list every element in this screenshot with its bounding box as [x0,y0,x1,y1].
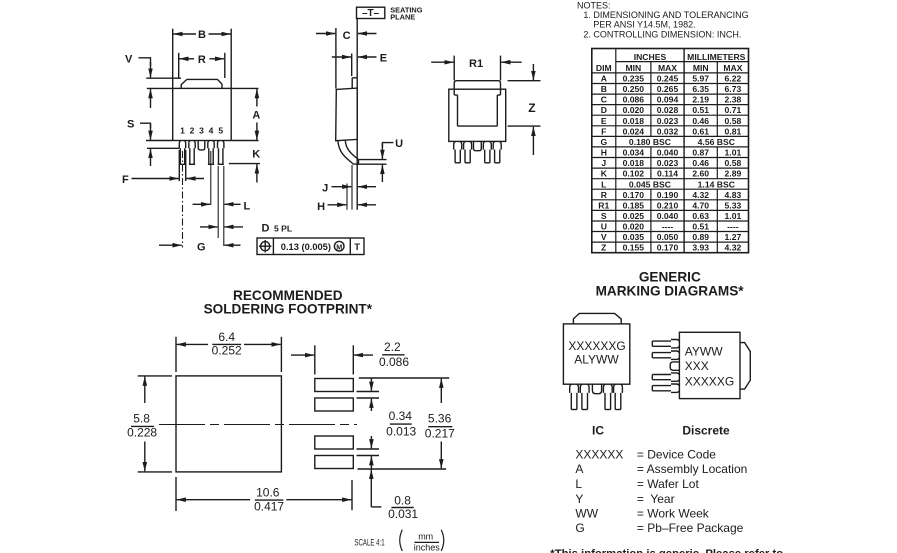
svg-text:*This information is generic.: *This information is generic. Please ref… [550,548,783,553]
dimension 10.6/0.417 [176,477,352,514]
svg-text:MARKING DIAGRAMS*: MARKING DIAGRAMS* [596,283,745,298]
svg-text:0.032: 0.032 [657,126,679,136]
svg-text:1.14 BSC: 1.14 BSC [698,179,735,189]
svg-text:4.70: 4.70 [692,200,709,210]
svg-text:V: V [125,53,133,65]
dimension R (tab width) [179,53,225,78]
svg-text:5.33: 5.33 [725,200,742,210]
svg-text:inches: inches [414,543,441,553]
svg-text:5: 5 [218,126,223,136]
dimension G (pin span) [159,241,241,253]
svg-text:0.190: 0.190 [657,190,679,200]
svg-text:IC: IC [592,424,604,438]
svg-text:G: G [575,521,584,535]
svg-text:H: H [601,148,607,158]
svg-text:2: 2 [190,126,195,136]
dimension 6.4/0.252 [176,330,281,372]
svg-text:XXXXXXG: XXXXXXG [568,339,625,353]
svg-text:0.61: 0.61 [692,126,709,136]
side view: tab [352,78,357,89]
svg-text:M: M [336,242,342,251]
dimension 0.8/0.031 [358,469,447,521]
notes text [577,0,749,39]
svg-text:L: L [575,477,582,491]
footprint: centerline [159,424,357,426]
svg-text:SOLDERING FOOTPRINT*: SOLDERING FOOTPRINT* [204,302,373,317]
svg-text:0.020: 0.020 [623,222,645,232]
svg-text:0.228: 0.228 [127,426,157,440]
svg-text:5 PL: 5 PL [274,224,292,234]
svg-text:3: 3 [199,126,204,136]
svg-text:0.8: 0.8 [394,494,411,508]
svg-text:SCALE 4:1: SCALE 4:1 [354,538,384,548]
dimension L (lead pitch) [193,201,251,213]
svg-text:0.086: 0.086 [623,95,645,105]
svg-text:0.252: 0.252 [212,344,242,358]
svg-text:1.01: 1.01 [725,211,742,221]
svg-text:0.018: 0.018 [623,116,645,126]
svg-text:2.60: 2.60 [692,169,709,179]
svg-text:2.2: 2.2 [384,340,401,354]
marking legend [575,448,747,536]
feature control frame: position tolerance 0.13 (0.005) M T [257,238,364,255]
svg-text:G: G [600,137,607,147]
svg-text:Z: Z [528,101,535,115]
svg-text:5.97: 5.97 [692,74,709,84]
back view: body [449,89,506,141]
dimension table [592,49,749,253]
seating plane line [356,19,358,210]
svg-text:2.38: 2.38 [725,95,742,105]
svg-text:MAX: MAX [658,63,677,73]
svg-text:D: D [262,223,270,235]
svg-text:0.46: 0.46 [692,116,709,126]
svg-text:0.155: 0.155 [623,243,645,253]
svg-text:3.93: 3.93 [692,243,709,253]
svg-text:E: E [380,53,387,65]
svg-text:GENERIC: GENERIC [639,269,701,284]
dimension K (lead length) [229,149,260,183]
dimension J (lead thickness) [322,183,376,195]
svg-text:0.102: 0.102 [623,169,645,179]
lead edge extension lines (J/H) [347,165,352,210]
svg-text:0.46: 0.46 [692,158,709,168]
svg-text:XXXXXG: XXXXXG [685,374,734,388]
svg-text:T: T [354,242,360,253]
dimension E (tab thickness) [332,53,387,77]
svg-text:DIM: DIM [596,63,612,73]
svg-text:0.13 (0.005): 0.13 (0.005) [281,242,331,252]
svg-text:= Wafer Lot: = Wafer Lot [637,477,700,491]
IC package pins [570,384,623,409]
svg-text:ALYWW: ALYWW [574,353,619,367]
svg-text:10.6: 10.6 [256,485,280,499]
pin 4 center extension line [210,151,212,205]
svg-text:RECOMMENDED: RECOMMENDED [233,288,343,303]
svg-text:0.025: 0.025 [623,211,645,221]
svg-text:B: B [198,29,206,41]
Discrete package outline [679,332,750,398]
svg-text:L: L [244,201,251,213]
dimension 5.36/0.217 [359,378,455,468]
svg-text:0.265: 0.265 [657,84,679,94]
dimension H (lead foot) [317,201,376,213]
svg-text:----: ---- [727,222,739,232]
footprint: lead pads [315,379,354,469]
pin 5 edge extension lines [218,166,224,246]
svg-text:H: H [317,201,325,213]
svg-text:0.235: 0.235 [623,74,645,84]
svg-text:INCHES: INCHES [634,52,667,62]
svg-text:R1: R1 [469,58,483,70]
dimension D (lead width, 5 places) [200,223,292,235]
front view: pins 1,2,4,5 and center pin 3 [179,141,224,165]
dimension F (pin1 width) [122,150,204,186]
svg-text:0.028: 0.028 [657,105,679,115]
dimension V (tab height) [125,53,181,108]
front view: package body outline [173,79,232,140]
svg-text:6.4: 6.4 [218,330,235,344]
svg-text:MILLIMETERS: MILLIMETERS [687,52,746,62]
svg-text:K: K [252,149,260,161]
svg-text:E: E [601,116,607,126]
svg-text:4.83: 4.83 [725,190,742,200]
dimension S (shoulder height) [127,119,179,166]
dimension 0.34/0.013 (pad gaps) [357,379,417,470]
svg-text:0.034: 0.034 [623,148,645,158]
Discrete package pins [652,340,679,393]
svg-text:U: U [601,222,607,232]
svg-text:R: R [198,54,206,66]
svg-text:WW: WW [575,507,598,521]
svg-text:6.22: 6.22 [725,74,742,84]
svg-text:XXX: XXX [685,359,709,373]
svg-text:PER ANSI Y14.5M, 1982.: PER ANSI Y14.5M, 1982. [593,20,695,30]
scale note [354,530,443,553]
svg-text:D: D [601,105,607,115]
svg-text:= Work Week: = Work Week [637,507,710,521]
svg-text:A: A [601,74,607,84]
svg-text:L: L [601,179,606,189]
svg-text:1.01: 1.01 [725,148,742,158]
dimension Z [508,64,541,155]
svg-text:0.58: 0.58 [725,116,742,126]
svg-text:0.87: 0.87 [692,148,709,158]
svg-text:0.045 BSC: 0.045 BSC [629,179,671,189]
svg-text:= Pb–Free Package: = Pb–Free Package [637,521,744,535]
svg-text:0.024: 0.024 [623,126,645,136]
back view: tab outline [454,81,500,126]
svg-text:0.040: 0.040 [657,148,679,158]
svg-text:XXXXXX: XXXXXX [575,448,623,462]
svg-text:U: U [395,138,403,150]
svg-text:–T–: –T– [362,8,380,19]
svg-text:0.020: 0.020 [623,105,645,115]
svg-text:5.8: 5.8 [133,412,150,426]
svg-text:0.180 BSC: 0.180 BSC [629,137,671,147]
svg-text:4.56 BSC: 4.56 BSC [698,137,735,147]
svg-text:R1: R1 [598,200,609,210]
front view: pin numbers 1-5 [180,126,223,136]
svg-text:0.34: 0.34 [389,409,413,423]
pin 1 centerline (dash-dot) [182,151,184,248]
IC marking text [568,339,625,367]
svg-text:0.250: 0.250 [623,84,645,94]
back view: dimension R1 [431,56,522,81]
back view: pins [454,141,502,162]
svg-text:J: J [601,158,606,168]
svg-text:G: G [197,241,206,253]
side view: body [336,88,358,141]
footprint title [204,288,373,317]
svg-text:0.018: 0.018 [623,158,645,168]
svg-text:----: ---- [662,222,674,232]
svg-text:0.023: 0.023 [657,116,679,126]
svg-text:mm: mm [418,531,433,541]
dimension B (top width) [173,29,232,88]
dimension A (body height) [232,88,261,140]
svg-text:AYWW: AYWW [685,345,723,359]
svg-text:MIN: MIN [625,63,641,73]
svg-text:0.023: 0.023 [657,158,679,168]
footprint: main pad [176,376,281,472]
svg-text:0.245: 0.245 [657,74,679,84]
svg-text:0.89: 0.89 [692,232,709,242]
svg-text:0.031: 0.031 [388,507,418,521]
svg-text:0.81: 0.81 [725,126,742,136]
svg-text:0.086: 0.086 [379,355,409,369]
svg-text:F: F [122,174,129,186]
svg-text:6.35: 6.35 [692,84,709,94]
side view: seating plane datum -T- [357,5,423,21]
svg-text:C: C [601,95,607,105]
IC package outline [563,313,629,384]
svg-text:NOTES:: NOTES: [577,0,611,10]
marking diagrams title [596,269,745,298]
side view: bent lead [338,141,359,165]
svg-text:S: S [601,211,607,221]
svg-text:C: C [343,30,351,42]
svg-text:2. CONTROLLING DIMENSION: INCH: 2. CONTROLLING DIMENSION: INCH. [583,29,741,39]
svg-text:0.040: 0.040 [657,211,679,221]
svg-text:0.170: 0.170 [623,190,645,200]
dimension 5.8/0.228 [127,376,172,472]
svg-text:A: A [252,110,260,122]
svg-text:Z: Z [601,243,606,253]
svg-text:R: R [601,190,608,200]
Discrete marking text [685,345,734,389]
svg-text:4.32: 4.32 [692,190,709,200]
svg-text:0.013: 0.013 [386,425,416,439]
svg-text:Y: Y [575,492,583,506]
svg-text:S: S [127,119,134,131]
svg-text:K: K [601,169,608,179]
svg-text:2.89: 2.89 [725,169,742,179]
svg-text:0.210: 0.210 [657,200,679,210]
svg-text:0.185: 0.185 [623,200,645,210]
svg-text:4.32: 4.32 [725,243,742,253]
svg-text:B: B [601,84,607,94]
svg-text:0.035: 0.035 [623,232,645,242]
svg-text:2.19: 2.19 [692,95,709,105]
svg-text:0.58: 0.58 [725,158,742,168]
svg-text:0.217: 0.217 [425,426,455,440]
svg-text:0.094: 0.094 [657,95,679,105]
svg-text:MAX: MAX [723,63,742,73]
svg-text:MIN: MIN [693,63,709,73]
svg-text:= Year: = Year [637,492,675,506]
svg-text:J: J [322,183,328,195]
dimension U (lead offset) [359,138,403,182]
svg-text:Discrete: Discrete [682,424,730,438]
dimension 2.2/0.086 [291,340,409,374]
svg-text:0.170: 0.170 [657,243,679,253]
svg-text:0.63: 0.63 [692,211,709,221]
svg-text:5.36: 5.36 [428,412,452,426]
svg-text:0.114: 0.114 [657,169,678,179]
svg-text:0.51: 0.51 [692,222,709,232]
svg-text:= Device Code: = Device Code [637,448,716,462]
svg-text:6.73: 6.73 [725,84,742,94]
svg-text:= Assembly Location: = Assembly Location [637,462,747,476]
svg-text:PLANE: PLANE [390,13,415,22]
svg-text:V: V [601,232,607,242]
svg-text:0.050: 0.050 [657,232,679,242]
dimension C (body thickness) [316,28,377,89]
svg-text:0.71: 0.71 [725,105,742,115]
svg-text:1.27: 1.27 [725,232,742,242]
svg-text:A: A [575,462,583,476]
table text [596,52,746,253]
svg-text:0.51: 0.51 [692,105,709,115]
svg-text:0.417: 0.417 [254,500,284,514]
svg-text:4: 4 [209,126,214,136]
svg-text:1: 1 [180,126,185,136]
svg-text:1. DIMENSIONING AND TOLERANCIN: 1. DIMENSIONING AND TOLERANCING [583,10,748,20]
svg-text:F: F [601,126,606,136]
